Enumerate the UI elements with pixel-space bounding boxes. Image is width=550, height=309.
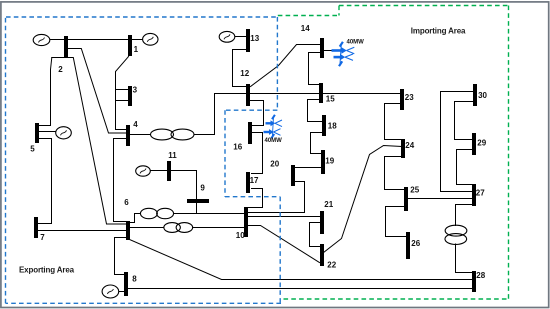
svg-text:18: 18 — [328, 122, 337, 131]
svg-text:10: 10 — [236, 231, 245, 240]
svg-text:11: 11 — [168, 151, 177, 160]
svg-text:19: 19 — [325, 157, 334, 166]
svg-text:40MW: 40MW — [347, 40, 365, 46]
svg-text:17: 17 — [250, 176, 259, 185]
svg-text:25: 25 — [410, 186, 419, 195]
svg-text:16: 16 — [233, 143, 242, 152]
svg-text:1: 1 — [134, 45, 139, 54]
svg-text:3: 3 — [133, 86, 138, 95]
svg-text:15: 15 — [326, 95, 335, 104]
svg-text:29: 29 — [477, 139, 486, 148]
svg-text:13: 13 — [250, 34, 259, 43]
svg-text:23: 23 — [405, 93, 414, 102]
svg-text:8: 8 — [132, 274, 137, 283]
svg-text:Exporting Area: Exporting Area — [19, 266, 75, 275]
svg-text:22: 22 — [327, 261, 336, 270]
svg-text:6: 6 — [124, 198, 129, 207]
svg-text:14: 14 — [301, 24, 310, 33]
svg-text:Importing Area: Importing Area — [411, 26, 466, 35]
svg-text:9: 9 — [200, 184, 205, 193]
svg-text:24: 24 — [405, 141, 414, 150]
svg-text:7: 7 — [40, 233, 45, 242]
svg-text:27: 27 — [476, 188, 485, 197]
svg-text:40MW: 40MW — [265, 138, 283, 144]
svg-text:28: 28 — [476, 271, 485, 280]
svg-text:20: 20 — [270, 160, 279, 169]
svg-text:26: 26 — [411, 239, 420, 248]
svg-text:5: 5 — [30, 145, 35, 154]
svg-text:12: 12 — [240, 69, 249, 78]
svg-text:2: 2 — [58, 65, 63, 74]
svg-text:21: 21 — [324, 200, 333, 209]
svg-text:4: 4 — [133, 120, 138, 129]
svg-text:30: 30 — [478, 91, 487, 100]
